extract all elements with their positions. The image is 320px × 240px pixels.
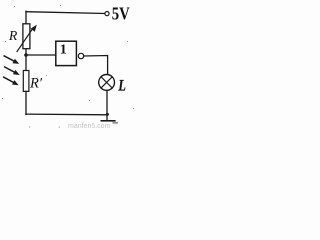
svg-text:manfen5.com: manfen5.com	[68, 123, 111, 130]
svg-text:1: 1	[60, 43, 67, 58]
svg-text:R′: R′	[29, 76, 43, 92]
svg-text:L: L	[118, 77, 126, 95]
svg-text:5V: 5V	[112, 4, 130, 24]
svg-text:R: R	[8, 28, 18, 43]
